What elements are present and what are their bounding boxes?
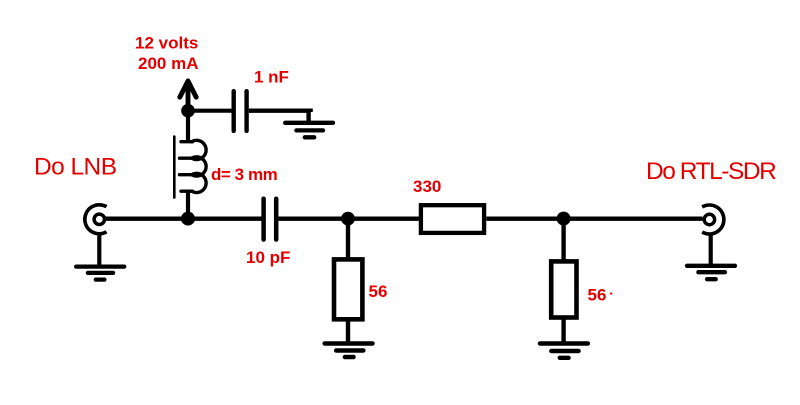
wire: 10pF to resistor 330 bbox=[278, 216, 419, 220]
supply arrow (12V feed) bbox=[180, 81, 196, 110]
ground (1 nF) bbox=[285, 123, 333, 138]
ground (second 56) bbox=[540, 344, 588, 358]
svg-text:56: 56 bbox=[588, 286, 607, 305]
resistor 56 (first shunt box) bbox=[334, 259, 362, 319]
node: junction dot at first shunt bbox=[341, 212, 355, 226]
stray mark after second 56 bbox=[610, 293, 612, 295]
svg-text:56: 56 bbox=[369, 282, 388, 301]
svg-text:330: 330 bbox=[413, 177, 441, 196]
node: junction dot at second shunt bbox=[557, 212, 571, 226]
svg-text:12 volts: 12 volts bbox=[135, 33, 198, 52]
ground (J2) bbox=[687, 266, 735, 279]
wire: first shunt drop bbox=[346, 219, 350, 258]
inductor L1 (coil, d=3mm) bbox=[180, 140, 207, 192]
svg-text:Do LNB: Do LNB bbox=[34, 154, 117, 181]
wire: 1nF right plate to ground corner bbox=[249, 111, 311, 112]
capacitor 1 nF bbox=[234, 91, 247, 131]
resistor 330 (series box) bbox=[421, 205, 484, 233]
ground (J1) bbox=[76, 267, 124, 280]
svg-text:Do RTL-SDR: Do RTL-SDR bbox=[646, 158, 776, 185]
wire: J1 ground drop bbox=[97, 234, 101, 265]
wire: first 56 to ground bbox=[346, 319, 350, 341]
wire: main line J1 to 10pF bbox=[105, 216, 262, 220]
inductor core bar bbox=[173, 137, 176, 198]
node: junction dot at 12V feed bbox=[181, 104, 195, 118]
svg-text:1 nF: 1 nF bbox=[254, 68, 289, 87]
ground (first 56) bbox=[325, 344, 373, 358]
wire: vertical drop into 1nF ground bbox=[306, 109, 310, 122]
connector J2 outer shell arc (open left) bbox=[702, 205, 724, 234]
svg-text:d= 3 mm: d= 3 mm bbox=[211, 165, 278, 184]
svg-text:10 pF: 10 pF bbox=[246, 248, 290, 267]
wire: 12V junction down to inductor bbox=[186, 111, 190, 142]
node: junction dot below inductor bbox=[181, 212, 195, 226]
connector J1 (LNB coax) inner pin bbox=[94, 214, 104, 224]
connector J2 (RTL-SDR coax) inner pin bbox=[704, 214, 714, 224]
wire: junction to 1nF left plate bbox=[188, 109, 232, 113]
wire: inductor bottom to main line bbox=[186, 191, 190, 219]
connector J1 outer shell arc (open right) bbox=[85, 205, 107, 234]
svg-text:200 mA: 200 mA bbox=[138, 54, 198, 73]
resistor 56 (second shunt box) bbox=[551, 261, 576, 317]
capacitor 10 pF bbox=[264, 199, 277, 240]
wire: second 56 to ground bbox=[561, 318, 565, 342]
wire: second shunt drop bbox=[561, 219, 565, 260]
wire: resistor 330 to second shunt node bbox=[486, 216, 702, 220]
wire: J2 ground drop bbox=[709, 234, 713, 265]
